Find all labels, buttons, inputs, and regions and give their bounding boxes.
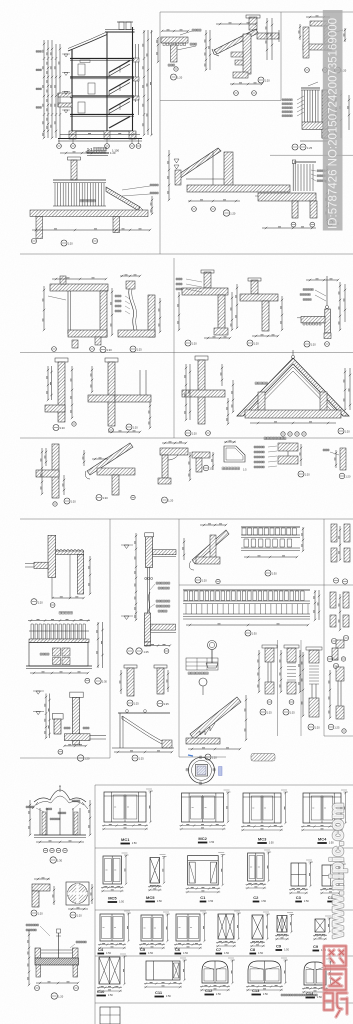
strip 14a circle: [265, 570, 271, 576]
gutter detail 31 top right: [299, 16, 347, 73]
gray ID watermark bar: [323, 10, 343, 231]
window type C4: [100, 914, 124, 941]
right wall: [224, 152, 233, 186]
lamp dim table: [186, 658, 218, 670]
chimney: [249, 17, 257, 30]
detail 8 index circles: [174, 67, 178, 71]
long crest strip 13: [183, 590, 320, 636]
detail 20 circle: [205, 754, 211, 760]
window type C14 arched: [304, 962, 326, 985]
pinwheel column section detail: [66, 882, 93, 918]
bench slide detail 16b: [112, 710, 174, 761]
short crest strip 14a: [241, 527, 304, 576]
dims 21: [45, 694, 47, 739]
detail 19b circles: [96, 495, 102, 501]
detail 14a index circles: [43, 848, 47, 852]
section elevation marks: [64, 54, 68, 57]
small jamb detail right: [323, 448, 351, 479]
window type C6: [176, 914, 200, 941]
wall floor detail 6: [88, 358, 151, 433]
slab 12: [301, 317, 325, 323]
parapet detail 9: [176, 270, 233, 346]
parapet gutter detail 16: [43, 276, 113, 353]
eave wall: [243, 34, 251, 74]
detail 12 circles: [304, 341, 310, 347]
blue pen mark: [188, 755, 193, 756]
corner detail 19c: [158, 442, 191, 503]
sill detail 22 with notes: [254, 437, 310, 477]
section ground line: [58, 138, 142, 140]
roof eave detail 28: [205, 15, 279, 95]
window type MC1: [104, 792, 146, 822]
window type MC2: [182, 793, 224, 822]
section footings: [69, 131, 76, 139]
railing detail 30 right: [255, 160, 339, 229]
dormer base slab: [245, 410, 341, 418]
window type C3 b: [322, 865, 339, 886]
sloped roof band: [214, 29, 258, 54]
red nitu watermark characters: [324, 946, 346, 966]
detail 24-25 circles: [127, 648, 133, 654]
window jamb strip A: [258, 645, 277, 715]
sloped roof right: [106, 187, 140, 211]
detail 10 circle: [247, 340, 253, 346]
window type C11: [146, 961, 180, 980]
window type MC3: [243, 793, 281, 823]
detail 16b circle: [132, 755, 138, 761]
window type C2: [248, 853, 265, 881]
window type C8: [252, 915, 263, 939]
moulding caption: [222, 467, 240, 470]
detail 14b index circles: [35, 986, 40, 991]
planter posts: [35, 948, 41, 958]
detail 20a circle: [203, 465, 209, 471]
section bay window left: [58, 93, 72, 97]
planter section detail 14b: [26, 924, 86, 999]
panel border lines: [159, 12, 161, 254]
window type C9 b: [315, 919, 325, 932]
bottom dim: [32, 229, 150, 231]
section right dimension lines: [143, 30, 145, 135]
slab: [187, 185, 290, 192]
section interior fixtures: [78, 64, 85, 75]
gate elevation detail 14a: [26, 786, 91, 863]
slide ramp detail 20: [186, 678, 247, 760]
section tower parapet and chimney: [105, 31, 135, 33]
building section drawing 1-1: [36, 22, 153, 153]
sloped eave detail 19b: [83, 443, 135, 501]
small wall detail 20a: [192, 452, 214, 472]
window type C9: [277, 916, 287, 933]
wall detail 8b: [45, 358, 76, 431]
window type C1: [188, 856, 219, 885]
eave corner detail 7a: [183, 524, 229, 584]
window type C7: [218, 914, 234, 939]
roof slope: [176, 148, 221, 179]
hatched title bar: [251, 754, 275, 762]
parapet detail 10: [236, 278, 283, 346]
railing bars: [53, 179, 106, 181]
cornice plan detail 23: [25, 535, 91, 607]
legs: [36, 217, 43, 239]
small posts left: [175, 170, 181, 185]
detail 30 circles: [291, 222, 296, 227]
fence circles: [85, 678, 90, 683]
dormer dims: [232, 380, 234, 412]
dormer gable detail 17: [232, 350, 351, 436]
cross wall detail 18: [182, 356, 229, 436]
detail 31 circles: [305, 68, 310, 73]
detail 28 index circles: [258, 77, 264, 83]
glazing lines: [146, 568, 148, 614]
section stairs: [109, 61, 130, 73]
railing 29 slab: [302, 122, 323, 129]
dims 24-25: [135, 533, 137, 620]
interior lines: [186, 178, 224, 180]
post: [71, 160, 77, 180]
circles: [192, 207, 197, 212]
window type C10: [99, 957, 120, 984]
window type C5: [141, 915, 163, 941]
bottom wall and slab: [145, 613, 151, 642]
attic wall detail 27: [168, 148, 290, 216]
detail 8b circles: [72, 422, 76, 426]
dims 12: [339, 282, 341, 330]
section roof slope: [68, 35, 107, 52]
cement moulding profile: [222, 441, 247, 472]
window type MC4: [303, 793, 341, 823]
detail 22 circle: [298, 471, 304, 477]
wall 12: [325, 309, 331, 333]
detail 6 circles: [109, 428, 114, 433]
window jamb strip B: [280, 645, 301, 715]
downspout detail 11: [115, 275, 161, 352]
circles: [31, 238, 36, 243]
section bottom dimension: [60, 134, 140, 136]
balcony railing detail 15: [30, 151, 158, 247]
detail 19a circles: [64, 498, 70, 504]
detail 16 circles: [52, 347, 57, 352]
detail 7a circles: [195, 577, 201, 583]
steps left of wall: [231, 52, 243, 57]
leader notes 29: [282, 99, 292, 101]
lamp post detail: [186, 641, 218, 675]
gate annotations: [26, 806, 34, 808]
window type C13 arched: [248, 961, 281, 983]
jamb pieces top right band4: [331, 524, 350, 584]
notes: [80, 200, 95, 202]
section left dimension lines: [43, 40, 45, 138]
column details 7b 7c: [120, 665, 169, 707]
dormer walls: [258, 392, 265, 412]
window type C3: [291, 863, 306, 886]
mullion pieces right band4: [330, 592, 349, 669]
window type MC5 x-pane: [150, 858, 160, 884]
detail 9 circle: [185, 340, 191, 346]
eave detail 8: [157, 29, 201, 80]
right slab: [257, 33, 279, 39]
fence elevation 15b: [26, 612, 107, 685]
slab: [30, 210, 148, 217]
window jamb strip C: [302, 647, 322, 730]
window jamb strip D right: [327, 640, 346, 733]
section left tiny labels: [36, 51, 42, 53]
top title: [87, 151, 106, 154]
flat eave detail 12: [297, 276, 346, 347]
stepped wall detail 21: [33, 691, 106, 761]
detail 19c circle: [162, 497, 168, 503]
detail 21 circles: [58, 749, 63, 754]
wall tee detail 19a: [36, 444, 76, 506]
section floors: [70, 58, 134, 60]
detail 29 circles: [292, 144, 298, 150]
window type C12 arched: [202, 961, 228, 983]
tall wall section 24-25: [121, 533, 176, 654]
center pole: [57, 929, 61, 933]
detail 23 circles: [31, 599, 37, 605]
dims: [168, 150, 170, 200]
railing 30 slab and walls: [258, 193, 316, 201]
section building walls: [71, 49, 73, 138]
railing 30 leader notes: [317, 170, 325, 172]
leader notes 12: [303, 289, 313, 291]
partial window next row: [100, 1007, 120, 1024]
dims 28: [205, 30, 207, 70]
jamb circle: [339, 473, 345, 479]
window type MC5: [103, 856, 122, 884]
dormer circles: [281, 432, 285, 436]
footing: [233, 72, 248, 78]
compass medallion: [186, 755, 222, 784]
detail 11 circle: [130, 346, 136, 352]
section axis circles: [57, 144, 62, 149]
schedule note after C14: [281, 994, 317, 996]
section annex right: [135, 44, 137, 102]
leader notes: [156, 582, 170, 584]
planter beam: [35, 958, 79, 965]
L-shaped column plan detail: [31, 878, 55, 916]
railing detail 29 right: [282, 82, 350, 150]
detail 18 circles: [185, 430, 191, 436]
fence inset squares: [53, 648, 61, 656]
strip 13 circle: [245, 630, 251, 636]
